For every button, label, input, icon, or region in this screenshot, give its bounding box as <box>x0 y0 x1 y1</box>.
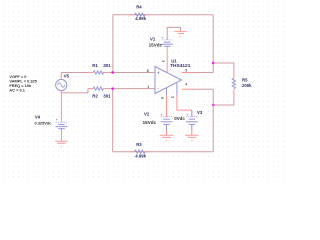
svg-text:V3: V3 <box>197 110 203 115</box>
wire pin4 to right vertical <box>198 88 213 90</box>
battery V2 <box>143 111 173 130</box>
wire V3 to ground <box>191 130 193 135</box>
svg-text:4.99k: 4.99k <box>135 16 146 21</box>
svg-text:0Vdc: 0Vdc <box>174 116 185 121</box>
wire V5 bottom to R2 with jog <box>61 89 88 93</box>
op-amp output pin 5 stub <box>182 72 198 74</box>
wire op-amp pin3 up to V1 <box>166 47 168 72</box>
wire left vertical (top feedback) <box>112 15 114 73</box>
svg-text:0.325Vdc: 0.325Vdc <box>35 120 53 125</box>
svg-text:8: 8 <box>147 69 149 73</box>
wire top rail from feedback node to right vertical <box>113 14 213 16</box>
wire R1 to op-amp pin 8 <box>108 72 155 74</box>
wire left vertical (bottom feedback) <box>112 89 114 152</box>
battery V4 <box>35 114 68 131</box>
resistor R5 <box>232 68 252 99</box>
wire branch to R5 top <box>213 63 234 68</box>
ground 0 at top right <box>174 31 187 38</box>
wire V5 top to R1 <box>61 72 88 74</box>
svg-text:15Vdc: 15Vdc <box>143 120 157 125</box>
svg-text:+: + <box>161 112 163 116</box>
svg-text:V2: V2 <box>144 111 150 116</box>
svg-text:1: 1 <box>147 85 149 89</box>
svg-text:R4: R4 <box>136 5 142 10</box>
node junction dot at R1 output <box>112 71 114 73</box>
svg-text:3: 3 <box>161 60 165 62</box>
svg-text:R5: R5 <box>242 78 248 83</box>
wire op-amp pin2 down to V3 <box>177 83 192 110</box>
svg-text:+: + <box>56 118 58 122</box>
svg-text:THS4121: THS4121 <box>170 63 191 69</box>
wire V2 to ground <box>166 130 168 135</box>
wire pin5 to right vertical <box>198 72 213 74</box>
wire bottom rail <box>113 151 214 153</box>
svg-text:R1: R1 <box>92 63 98 68</box>
ground 0 under V3 <box>185 135 199 142</box>
battery V3 <box>174 110 203 130</box>
svg-text:200k: 200k <box>242 83 252 88</box>
resistor R4 <box>130 5 150 22</box>
wire from R5 bottom to lower junction <box>213 99 234 105</box>
svg-text:R2: R2 <box>92 93 98 98</box>
wire R2 to op-amp pin 1 <box>108 88 155 90</box>
svg-text:+: + <box>186 112 188 116</box>
wire V5 bottom down to V4 <box>60 93 62 122</box>
voltage source V5 (VSIN) <box>56 73 70 93</box>
ground 0 under V2 <box>160 135 174 142</box>
op-amp output pin 4 stub <box>182 88 198 90</box>
svg-text:2: 2 <box>171 96 175 98</box>
V5 value text block <box>9 74 37 93</box>
svg-text:4.99k: 4.99k <box>135 154 146 159</box>
battery V1 <box>149 35 174 47</box>
svg-text:15Vdc: 15Vdc <box>149 43 163 48</box>
svg-text:AC = 0.1: AC = 0.1 <box>9 88 25 93</box>
wire op-amp pin6 down to V2 <box>166 88 168 117</box>
wire right vertical A (top) <box>212 15 214 73</box>
svg-text:5: 5 <box>185 68 187 72</box>
resistor R3 <box>130 142 150 158</box>
svg-text:V5: V5 <box>64 74 70 79</box>
wire V1 top to ground <box>167 27 180 40</box>
svg-text:R3: R3 <box>136 142 142 147</box>
svg-text:+: + <box>162 35 164 39</box>
wire right vertical B (bottom) <box>212 89 214 152</box>
ground 0 under V4 <box>55 141 68 148</box>
svg-text:4: 4 <box>185 82 187 86</box>
svg-text:+: + <box>157 71 160 76</box>
node junction dot bottom-right <box>212 104 214 106</box>
wire jog to V3 <box>191 110 193 117</box>
resistor R1 <box>88 63 111 74</box>
svg-text:301: 301 <box>103 93 111 98</box>
node junction dot top-right <box>212 62 214 64</box>
wire V4 to ground <box>60 132 62 142</box>
svg-text:V1: V1 <box>150 37 156 42</box>
svg-text:301: 301 <box>103 63 111 68</box>
svg-text:6: 6 <box>160 97 164 99</box>
op-amp U1 THS4121 <box>155 59 191 94</box>
svg-text:V4: V4 <box>35 114 41 119</box>
resistor R2 <box>88 87 111 98</box>
svg-text:U1: U1 <box>171 59 177 64</box>
node junction dot at R2 output <box>112 88 114 90</box>
